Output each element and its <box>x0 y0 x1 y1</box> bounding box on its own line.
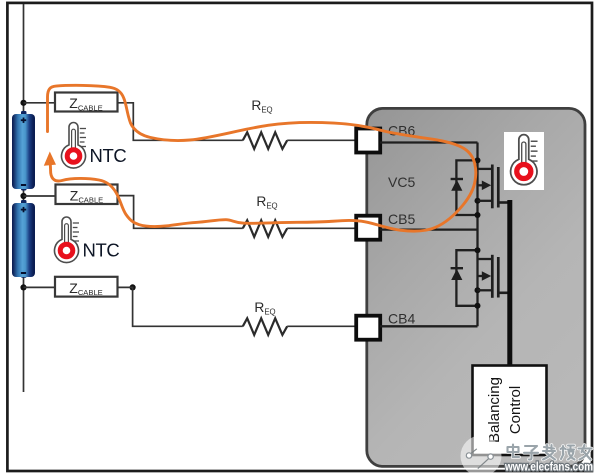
wire: CB5 internal line <box>380 228 478 230</box>
battery cell 1 <box>12 111 35 191</box>
watermark text: elecfans CJK glyph approximations <box>508 445 592 460</box>
node: cell2 bottom junction <box>20 284 26 290</box>
node: row3 jog junction <box>130 284 136 290</box>
pin CB4 <box>356 316 380 340</box>
pin CB5 <box>356 216 380 240</box>
diode D1 (body diode, cathode up) <box>451 178 463 180</box>
wire: lower diode branch <box>456 250 477 306</box>
resistor ZCABLE3 box <box>55 277 118 297</box>
wire: row1 left segment <box>24 102 56 104</box>
wire: row2 left segment <box>24 195 56 197</box>
thermistor NTC2 icon <box>55 217 80 263</box>
wire: main vertical drain-source bus <box>476 143 478 327</box>
Balancing Control block <box>473 366 547 456</box>
node: upper drain junction <box>475 157 481 163</box>
wire: row3 jog <box>118 287 243 326</box>
transistor Q2 (lower balancing FET) <box>478 255 499 298</box>
node: cell1 top junction <box>20 100 26 106</box>
svg-text:Control: Control <box>507 386 524 434</box>
pin CB6 <box>356 129 380 153</box>
battery cell 2 <box>12 200 35 278</box>
svg-text:CB4: CB4 <box>388 311 415 327</box>
wire: gate control bus to balancing block <box>507 200 512 366</box>
svg-text:Balancing: Balancing <box>486 377 503 443</box>
node: upper source stub junction <box>475 198 481 204</box>
wire: row1 jog <box>118 103 243 141</box>
wire: CB4 internal line <box>380 325 478 327</box>
resistor ZCABLE2 box <box>56 185 118 205</box>
wire: row1 to pin CB6 <box>287 139 355 141</box>
resistor ZCABLE1 box <box>55 93 118 112</box>
diode D2 (body diode, cathode up) <box>451 267 463 269</box>
svg-text:www.elecfans.com: www.elecfans.com <box>504 462 593 474</box>
node: lower source stub junction <box>475 287 481 293</box>
wire: CB6 internal line <box>380 141 478 143</box>
svg-text:VC5: VC5 <box>388 174 415 190</box>
wire: row3 left segment <box>24 286 56 288</box>
wire: lower gate lead <box>498 291 510 294</box>
watermark logo circle <box>461 436 502 476</box>
svg-text:NTC: NTC <box>90 145 127 166</box>
IC U1 (monitor/balancer block) <box>367 108 585 466</box>
svg-text:NTC: NTC <box>83 240 120 261</box>
wire: highlighted measurement loop (orange) <box>48 85 476 231</box>
thermometer icon box (IC internal temp sense) <box>504 132 544 190</box>
node: cell1/cell2 midpoint junction <box>20 193 26 199</box>
wire: row2 to pin CB5 <box>287 227 355 229</box>
wire: left vertical bus <box>23 4 25 392</box>
svg-text:CB5: CB5 <box>388 211 415 227</box>
wire: upper gate lead <box>498 201 510 204</box>
arrowhead of orange loop <box>44 152 56 166</box>
node: lower drain junction <box>475 247 481 253</box>
node: lower diode return junction <box>475 303 481 309</box>
thermistor NTC1 icon <box>62 123 87 169</box>
transistor Q1 (upper balancing FET) <box>478 165 499 209</box>
wire: row2 jog <box>118 196 243 229</box>
wire: row3 to pin CB4 <box>287 325 355 327</box>
wire: upper diode branch <box>456 160 477 215</box>
node: upper diode return junction <box>475 212 481 218</box>
